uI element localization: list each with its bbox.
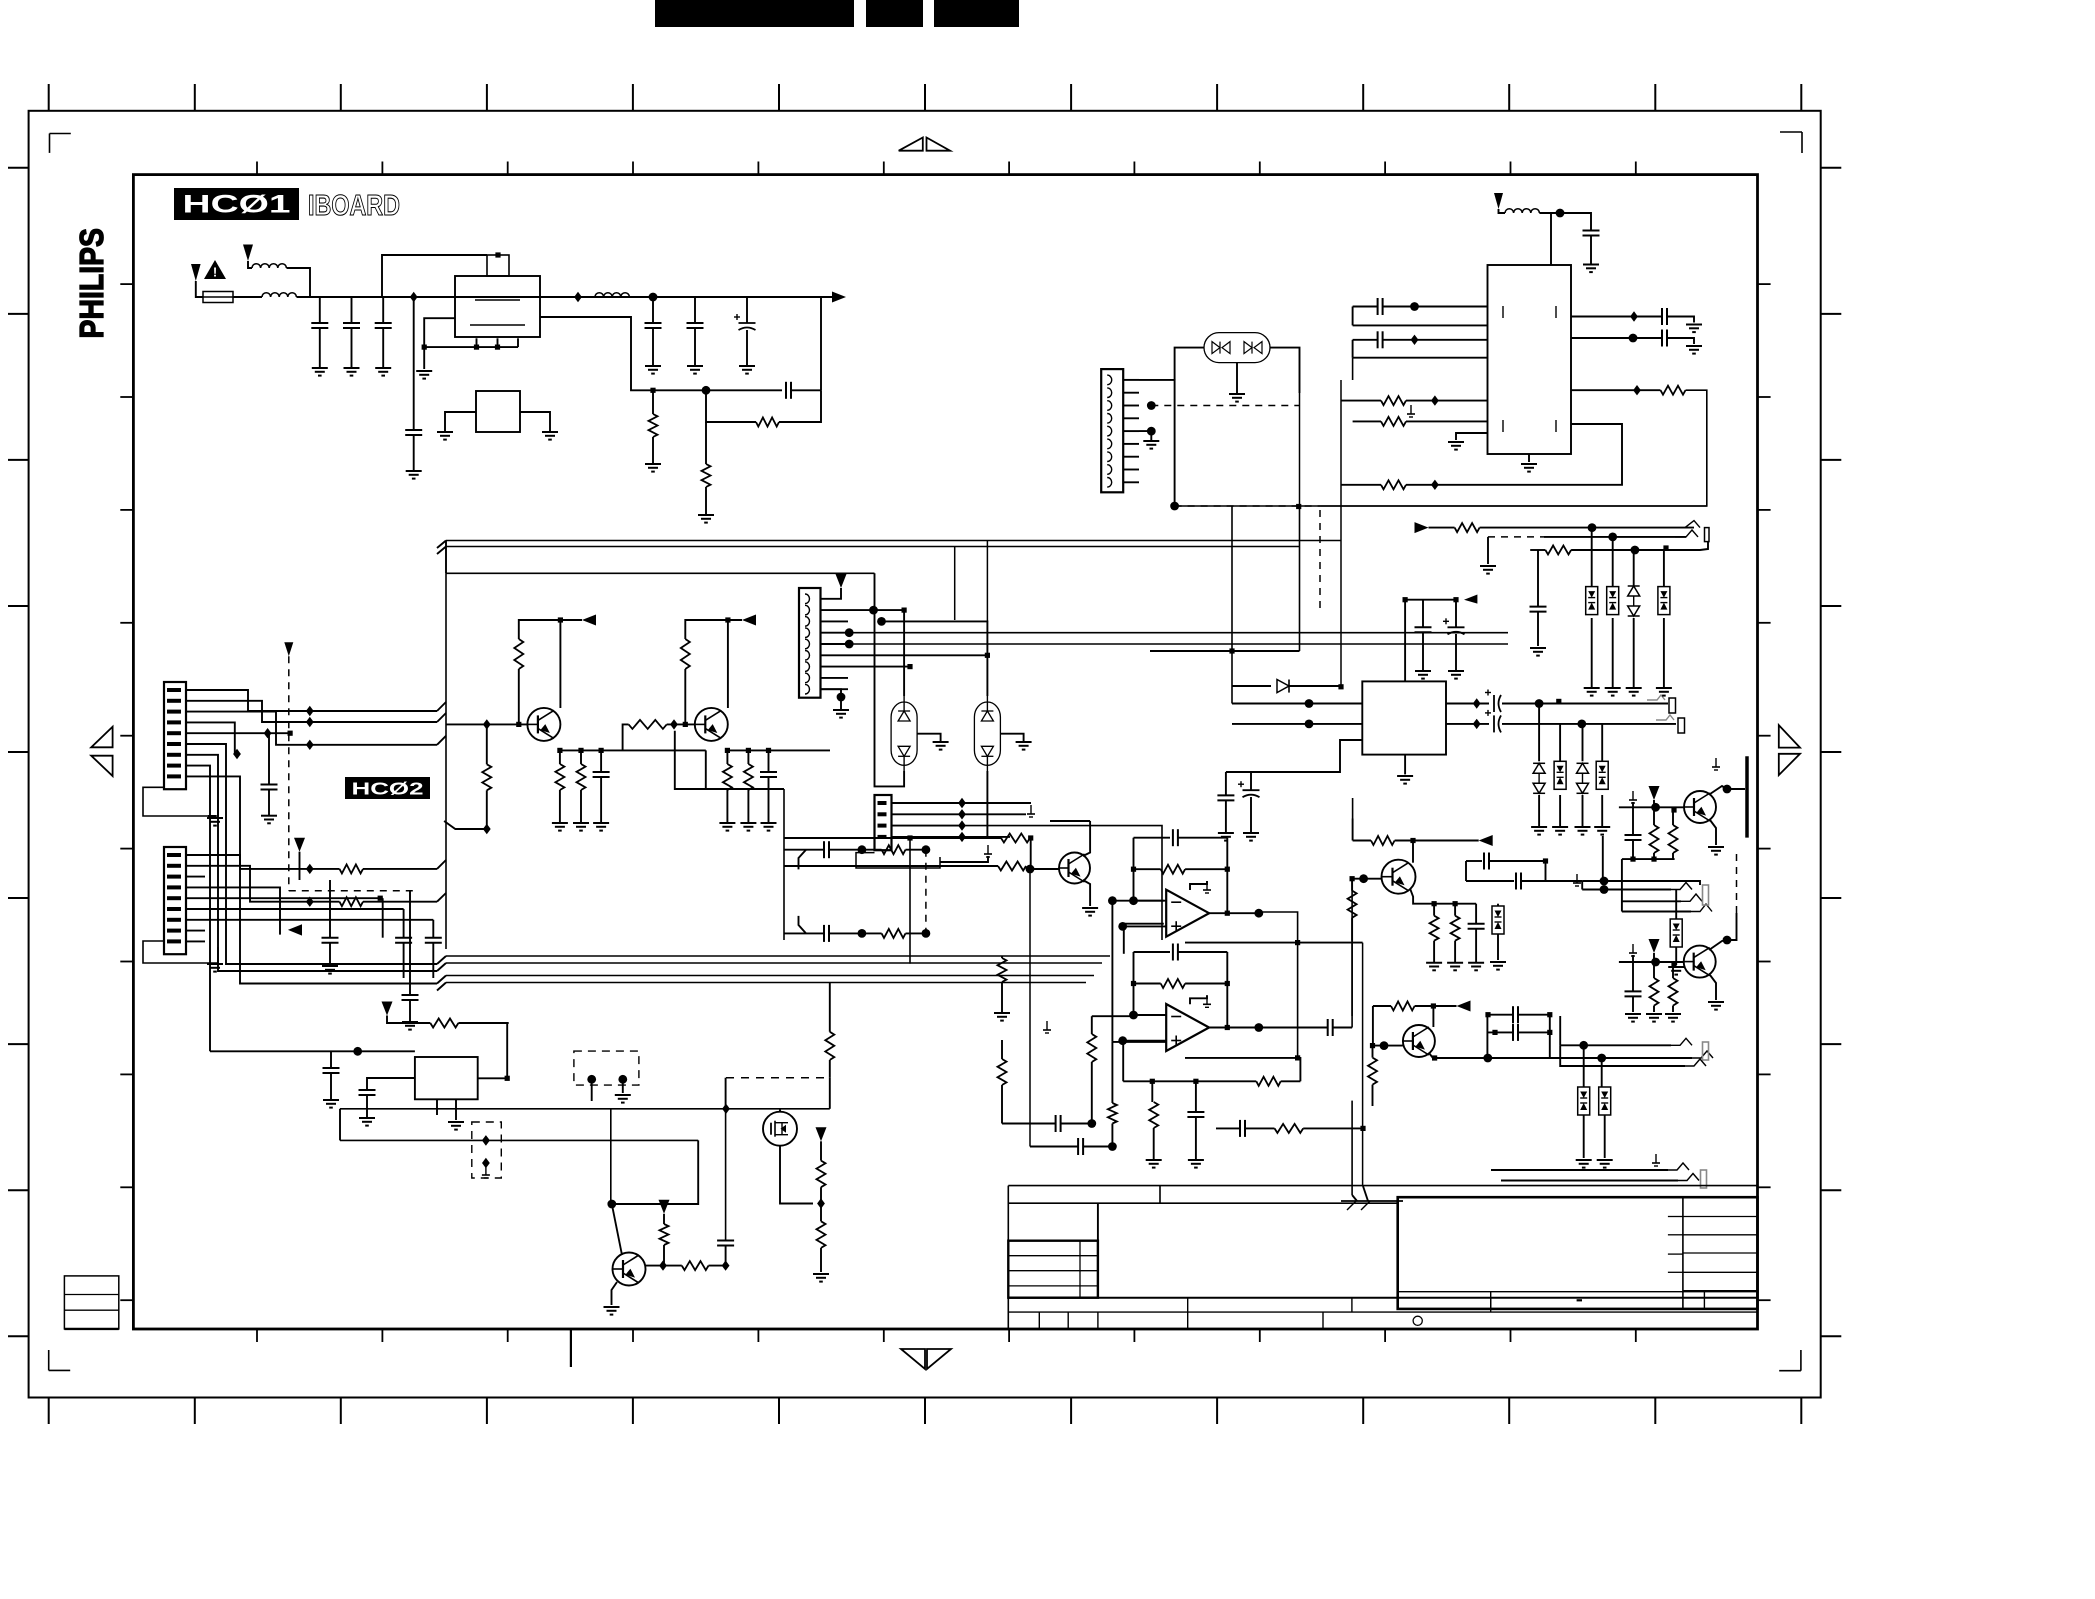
wire into tuner IC xyxy=(1550,213,1552,265)
wire U1 out xyxy=(540,296,595,298)
q6 emitter wire xyxy=(1710,975,1716,1000)
diamond cn5 xyxy=(958,832,966,842)
tuner input bottom wire xyxy=(1353,324,1488,326)
ground C18 xyxy=(1448,670,1464,672)
emitter drop q2 xyxy=(726,750,728,764)
diamond right sense xyxy=(1633,385,1641,395)
Q3 ground 3 xyxy=(1468,962,1484,964)
dot hp1 xyxy=(1600,877,1609,886)
U4 out wire 2 xyxy=(1446,723,1489,725)
dashed link q4q6 xyxy=(1736,854,1738,913)
bus bundle wire 3 xyxy=(446,975,1094,977)
db1 stub a xyxy=(591,1079,593,1101)
coupling cap wire 1 xyxy=(1487,1014,1513,1016)
mosfet M1 xyxy=(763,1112,797,1146)
q3 couple vert xyxy=(1465,861,1467,881)
CN1 pin stub xyxy=(186,743,205,745)
Q5 base sq xyxy=(1370,1043,1375,1048)
Q5 collector vert xyxy=(1432,1006,1434,1027)
ic5 feed wire xyxy=(210,1050,415,1052)
capacitor C35 xyxy=(1512,1006,1514,1023)
r11 top xyxy=(519,620,582,639)
wire AC arrow to inductor xyxy=(248,261,252,268)
ground below C14 xyxy=(402,1021,418,1023)
bus jog down xyxy=(437,860,446,869)
CN1 wire 4 xyxy=(205,722,235,754)
q8 res wire 2 xyxy=(784,865,998,867)
regulator U1 body xyxy=(455,276,540,337)
CN3 pin wire 9 xyxy=(1123,481,1139,483)
tuner input pair bracket xyxy=(1352,307,1354,326)
q3 couple wire b xyxy=(1466,880,1514,882)
ground out 2 xyxy=(1686,345,1702,347)
resistor R25 xyxy=(682,1261,709,1270)
resistor R16 xyxy=(1455,523,1480,532)
opamp U5B out dot xyxy=(1254,1023,1263,1032)
resistor R18 xyxy=(1256,1077,1280,1086)
capacitor C38 xyxy=(1515,873,1517,890)
Q3 base wire xyxy=(1352,878,1381,880)
HC01 label xyxy=(174,188,299,220)
clamp gnd wire xyxy=(1601,795,1603,827)
U5A noninv drop xyxy=(1123,924,1125,954)
dot hp2 xyxy=(1600,885,1609,894)
cb cap drop b xyxy=(1632,996,1634,1012)
clamp top gnd wire xyxy=(1663,618,1665,688)
hp squiggle 1 xyxy=(1671,883,1692,890)
loop feed vertical xyxy=(783,789,785,940)
resistor R14 xyxy=(882,845,906,854)
polarized capacitor C21 xyxy=(1493,695,1495,712)
x2 bottom b xyxy=(910,837,987,839)
small ground cn5a xyxy=(1030,805,1032,814)
dot CN3 pin2 xyxy=(1147,401,1156,410)
diamond cw2 xyxy=(306,897,314,907)
q3 couple wire b2 xyxy=(1521,880,1582,882)
ground C28 xyxy=(323,1099,339,1101)
Q3 collector vert xyxy=(1412,841,1414,863)
diamond w3 xyxy=(306,740,314,750)
ground rec xyxy=(1480,565,1496,567)
capacitor C30 xyxy=(717,1240,734,1242)
left long bus vertical xyxy=(445,702,447,949)
resistor Re2 xyxy=(723,764,732,790)
Q3 em drop3b xyxy=(1475,929,1477,963)
CN3 pin wire 2 xyxy=(1123,392,1139,394)
polarized capacitor C22 xyxy=(1493,715,1495,732)
q1 emitter rail xyxy=(560,749,706,751)
U5B noninv vert b xyxy=(1111,1124,1113,1147)
dashed horiz xyxy=(289,890,413,892)
connector CN3 xyxy=(1101,369,1123,492)
transformer T1 xyxy=(799,588,821,698)
connector CN5 xyxy=(875,795,892,850)
regulator U2 body xyxy=(476,391,520,432)
U5A inv tap dot xyxy=(1108,896,1117,905)
x2 tap xyxy=(1000,734,1023,742)
svg-text:IBOARD: IBOARD xyxy=(308,190,400,222)
sq q8 xyxy=(1028,835,1033,840)
junction q1 base xyxy=(516,722,521,727)
U1 pin stub 3 xyxy=(517,338,519,347)
ground right of U2 xyxy=(542,431,558,433)
CN2 pin stub xyxy=(186,854,205,856)
mid wire drop xyxy=(612,1140,698,1204)
capacitor Ce xyxy=(593,771,610,773)
ic5 left cap wire xyxy=(367,1078,415,1090)
m1 low wire b xyxy=(820,1248,822,1272)
CN1 pin stub xyxy=(186,775,205,777)
hp riser from clamp xyxy=(1602,836,1604,881)
ground CN1 shell xyxy=(207,817,223,819)
junction e3 xyxy=(599,748,604,753)
U4 cap b gnd wire xyxy=(1455,634,1457,671)
CN1 wire 9 xyxy=(205,776,437,983)
diamond w5 xyxy=(264,728,272,738)
Q3 bias vert xyxy=(1351,879,1353,891)
q5 chassis vert xyxy=(1351,1101,1353,1195)
loop wire xyxy=(1341,484,1381,486)
resistor R15 xyxy=(882,929,906,938)
supply arrow dashed bus xyxy=(284,642,293,656)
bus vertical left xyxy=(445,573,447,702)
wire D1 center tap xyxy=(1236,362,1238,393)
clamp cap gnd xyxy=(1537,612,1539,646)
small ground col xyxy=(1046,1021,1048,1030)
col res mid xyxy=(1001,982,1003,1013)
interstage b xyxy=(667,723,696,725)
resistor R28 xyxy=(817,1221,826,1248)
capacitor C16 xyxy=(823,925,825,942)
junction sq w5 xyxy=(288,731,293,736)
CN5 pin wire xyxy=(892,802,963,804)
supply left vert xyxy=(339,1109,341,1141)
dot q6 coll xyxy=(1723,936,1732,945)
cap drop b xyxy=(403,909,405,938)
junction e2 xyxy=(578,748,583,753)
diamond q2 base xyxy=(670,719,678,729)
CN3 pin wire 3 xyxy=(1123,405,1139,407)
c13 gnd xyxy=(329,943,331,966)
ground R34 xyxy=(1665,1013,1681,1015)
wire L3 to rail xyxy=(629,296,841,298)
junction q2 base xyxy=(683,722,688,727)
q7 vert xyxy=(610,1109,612,1204)
speaker contact bar xyxy=(1745,756,1749,837)
rec wire 1b xyxy=(1480,527,1694,529)
capacitor C27 xyxy=(1077,1138,1079,1155)
CN1 pin stub xyxy=(186,754,205,756)
zener box q3 xyxy=(1492,906,1504,934)
Q3 emitter wire xyxy=(1410,889,1476,904)
ca arr wire xyxy=(1653,800,1655,807)
U4 left support wire xyxy=(1226,740,1362,772)
Q5 rail wire b xyxy=(1415,1005,1457,1007)
fb wire to rail drop xyxy=(791,389,821,391)
vertical bus x2 xyxy=(986,660,988,696)
capacitor C19 xyxy=(1217,794,1234,796)
m1 source wire xyxy=(780,1146,813,1204)
wire cap 3 to ground xyxy=(382,328,384,368)
wire ant to coil xyxy=(1499,209,1506,213)
junction e1 xyxy=(557,748,562,753)
U5B fb sq xyxy=(1295,1055,1300,1060)
cap in wire2b xyxy=(1083,1146,1112,1148)
opamp U5B inv input dot xyxy=(1129,1011,1138,1020)
CN1 pin stub xyxy=(186,765,205,767)
CN3 gnd wire xyxy=(1139,431,1151,440)
tuner input bottom wire xyxy=(1353,357,1488,359)
T1 pin wire 7 xyxy=(821,677,849,679)
bus top horiz xyxy=(446,572,875,574)
ground C19 xyxy=(1218,832,1234,834)
wire to ground 5 xyxy=(652,328,654,366)
emitter cap drop xyxy=(600,750,602,772)
ic left gnd pin xyxy=(1456,433,1488,440)
cw1 b xyxy=(363,868,437,870)
U5B plus wire xyxy=(1112,1041,1166,1043)
inductor L1 xyxy=(252,264,286,268)
U1 bottom rail xyxy=(424,346,518,348)
rec wire 2 xyxy=(1544,536,1686,538)
capacitor C11 xyxy=(395,937,412,939)
ground hp dz xyxy=(1668,966,1684,968)
ca res2 top xyxy=(1672,810,1674,825)
U2 right leg xyxy=(520,412,550,432)
j4 wire 1 xyxy=(1560,1044,1671,1046)
wire L1 to node xyxy=(287,268,311,297)
resistor Re2 xyxy=(744,764,753,790)
CN1 pin stub xyxy=(186,700,205,702)
junction on U1 top xyxy=(495,252,500,257)
ground C17 xyxy=(1415,670,1431,672)
j4 squiggle 3 xyxy=(1685,1059,1706,1066)
title block xyxy=(1008,1185,1757,1187)
resistor R23 xyxy=(998,1059,1007,1085)
t1 out wire 2 xyxy=(882,621,988,660)
loop2 bottom rail b xyxy=(829,932,882,934)
diamond w2 xyxy=(306,717,314,727)
U1 pin stub 1 xyxy=(476,338,478,347)
diamond w4 xyxy=(233,749,241,759)
zener box clamp xyxy=(1554,761,1566,789)
jumper up vert xyxy=(829,1060,831,1078)
CN1 shell outline xyxy=(143,787,218,816)
zener box clamp xyxy=(1596,761,1608,789)
U4 out wire 1b xyxy=(1502,703,1668,705)
ground Q6 xyxy=(1708,1001,1724,1003)
junction dot at L3 out xyxy=(649,293,658,302)
x1 tap xyxy=(917,734,941,742)
junction U4 top b xyxy=(1453,597,1458,602)
emitter cap q2b xyxy=(768,777,770,823)
U5A inv left wire xyxy=(1112,900,1163,902)
capacitor Cout1 xyxy=(1661,308,1663,325)
ground emitter q2 xyxy=(719,822,735,824)
zener box clamp top xyxy=(1658,587,1670,615)
dot c in2 xyxy=(1108,1142,1117,1151)
ground Q4 xyxy=(1708,846,1724,848)
Q3 bias vert b xyxy=(1351,918,1353,941)
ground below R3 xyxy=(698,514,714,516)
wire cap drop 2 xyxy=(351,297,353,323)
opamp U5B noninv input dot xyxy=(1118,1036,1127,1045)
arrow down cn2 xyxy=(294,838,305,852)
transistor Q2 xyxy=(695,708,728,741)
Q3 em sq b xyxy=(1453,901,1458,906)
dot t1 c xyxy=(845,628,854,637)
opamp U5A noninv input wire xyxy=(1123,925,1167,927)
Q3 rail left vert xyxy=(1352,819,1354,841)
loop2 left kink xyxy=(799,916,807,934)
bus bundle jog 2 xyxy=(437,963,446,971)
opamp U5B feedback capacitor xyxy=(1172,944,1174,961)
clamp low gnd wire b xyxy=(1604,1115,1606,1158)
Q3 supply arrow xyxy=(1479,835,1493,846)
clamp top wire xyxy=(1663,550,1665,587)
if wire xyxy=(1353,420,1381,422)
CN2 wire 5 xyxy=(205,908,404,910)
q7 out wire xyxy=(646,1265,682,1267)
x2 bottom xyxy=(986,771,988,838)
tuner input top wire b xyxy=(1383,339,1488,341)
opamp U5A feedback resistor xyxy=(1161,865,1185,874)
capacitor C14 xyxy=(402,994,419,996)
dot q4 base xyxy=(1651,803,1660,812)
solid bus segment xyxy=(1320,505,1707,507)
CN1 pin stub xyxy=(186,689,205,691)
q1 bias vert xyxy=(486,724,488,764)
Q5 base wire xyxy=(1373,1045,1403,1047)
sq couple a xyxy=(1543,858,1548,863)
cn2 arrow wire xyxy=(299,852,301,880)
U2 left leg xyxy=(445,412,476,432)
ic5 in cap gnd xyxy=(330,1073,332,1100)
opamp U5B feedback resistor xyxy=(1161,979,1185,988)
q1 collector xyxy=(559,620,561,708)
q2 bias down xyxy=(675,731,706,789)
c31 wire b xyxy=(1245,1127,1275,1129)
ground left of U3 xyxy=(1448,441,1464,443)
coupling cap wire 2 xyxy=(1487,1031,1513,1033)
cap to gnd w5 xyxy=(268,790,270,816)
resistor R2 xyxy=(756,418,779,427)
ground emitter xyxy=(552,822,568,824)
U4 input wire 2 xyxy=(1232,723,1362,725)
q1 rail link xyxy=(706,750,784,789)
U4 out wire 2b xyxy=(1502,723,1676,725)
wire polar cap drop xyxy=(746,297,748,323)
wire to ground 6 xyxy=(694,328,696,366)
Q5 collector resistor xyxy=(1391,1002,1415,1011)
wire to cap C9 xyxy=(1539,213,1591,231)
ground C24 xyxy=(1188,1159,1204,1161)
clamp gnd wire xyxy=(1559,795,1561,827)
CN2 pin stub xyxy=(186,886,205,888)
ground emitter cap q2 xyxy=(761,822,777,824)
clamp cap wire xyxy=(1537,550,1539,607)
dot loop1 b xyxy=(922,845,931,854)
resistor R6 xyxy=(1381,480,1406,489)
coupling vert xyxy=(1486,1015,1488,1058)
dot loop1 a xyxy=(858,845,867,854)
diamond agc xyxy=(1431,395,1439,405)
q8 emitter xyxy=(1083,880,1090,906)
q7 base diag xyxy=(612,1204,622,1255)
q8 res wire 1 xyxy=(784,837,1001,839)
q1 bias up xyxy=(518,669,520,724)
lineout jack tip xyxy=(1703,1042,1709,1060)
signal riser to Q3 xyxy=(1351,879,1353,1028)
q7 emitter gnd wire xyxy=(612,1282,618,1305)
support cap 2 gnd xyxy=(1250,797,1252,833)
tuner out wire 2 xyxy=(1571,337,1662,339)
Q3 bias resistor xyxy=(1348,891,1357,918)
diamond w1 xyxy=(306,706,314,716)
CN1 wire 1 xyxy=(205,690,437,711)
U5A out wire ext xyxy=(1259,912,1298,1058)
CN1 wire 5b xyxy=(268,732,291,734)
ground CN3 xyxy=(1143,440,1159,442)
xfmr top wire xyxy=(821,588,842,599)
CN2 pin stub xyxy=(186,940,205,942)
supply arrow IC5 xyxy=(382,1002,393,1016)
bus drop to lower area xyxy=(1340,380,1342,687)
coupling right vert xyxy=(1549,1015,1551,1058)
q3 dz drop xyxy=(1497,904,1499,906)
clamp top wire xyxy=(1633,550,1635,587)
diamond m1 xyxy=(817,1198,825,1208)
capacitor C3 xyxy=(375,322,392,324)
diode to bus xyxy=(1289,685,1341,687)
hp wire 3 xyxy=(1622,900,1681,902)
inductor L3 xyxy=(595,293,629,297)
diamond DB2 a xyxy=(482,1135,490,1145)
capacitor C29 xyxy=(359,1089,376,1091)
coupling sq 2L xyxy=(1492,1030,1497,1035)
ca res1 top xyxy=(1653,807,1655,825)
supply wire y651 xyxy=(1150,650,1300,652)
transistor Q7 xyxy=(613,1253,646,1286)
q8 base column xyxy=(1029,869,1031,1147)
clamp drop wire xyxy=(1538,704,1540,762)
junction r30 xyxy=(1360,1126,1365,1131)
capacitor C5 xyxy=(645,322,662,324)
bundle top wire 1 xyxy=(446,540,1341,542)
opamp U5A inv input wire xyxy=(1134,900,1167,902)
regulator IC5 body xyxy=(415,1057,478,1099)
resistor R36 xyxy=(998,862,1026,871)
phono jack J3b xyxy=(1656,715,1674,720)
q3 dz gnd wire xyxy=(1497,934,1499,960)
diamond cn5 xyxy=(958,820,966,830)
loop feed a xyxy=(784,849,806,851)
CN3 pin wire 4 xyxy=(1123,417,1139,419)
ground below C6 xyxy=(687,365,703,367)
U4 out wire 1 xyxy=(1446,703,1489,705)
chassis ground xyxy=(1341,1200,1403,1202)
clamp top gnd wire xyxy=(1591,618,1593,688)
junction sq U1 c xyxy=(495,345,500,350)
capacitor C13 xyxy=(322,937,339,939)
ground left of U2 xyxy=(437,431,453,433)
j5 squiggle 2 xyxy=(1678,1174,1699,1181)
dot on pair1 xyxy=(1410,302,1419,311)
ground q3 dz xyxy=(1490,961,1506,963)
ground Q7 xyxy=(604,1306,620,1308)
zener box low b xyxy=(1599,1087,1611,1115)
m1 arrow wire xyxy=(820,1141,822,1160)
